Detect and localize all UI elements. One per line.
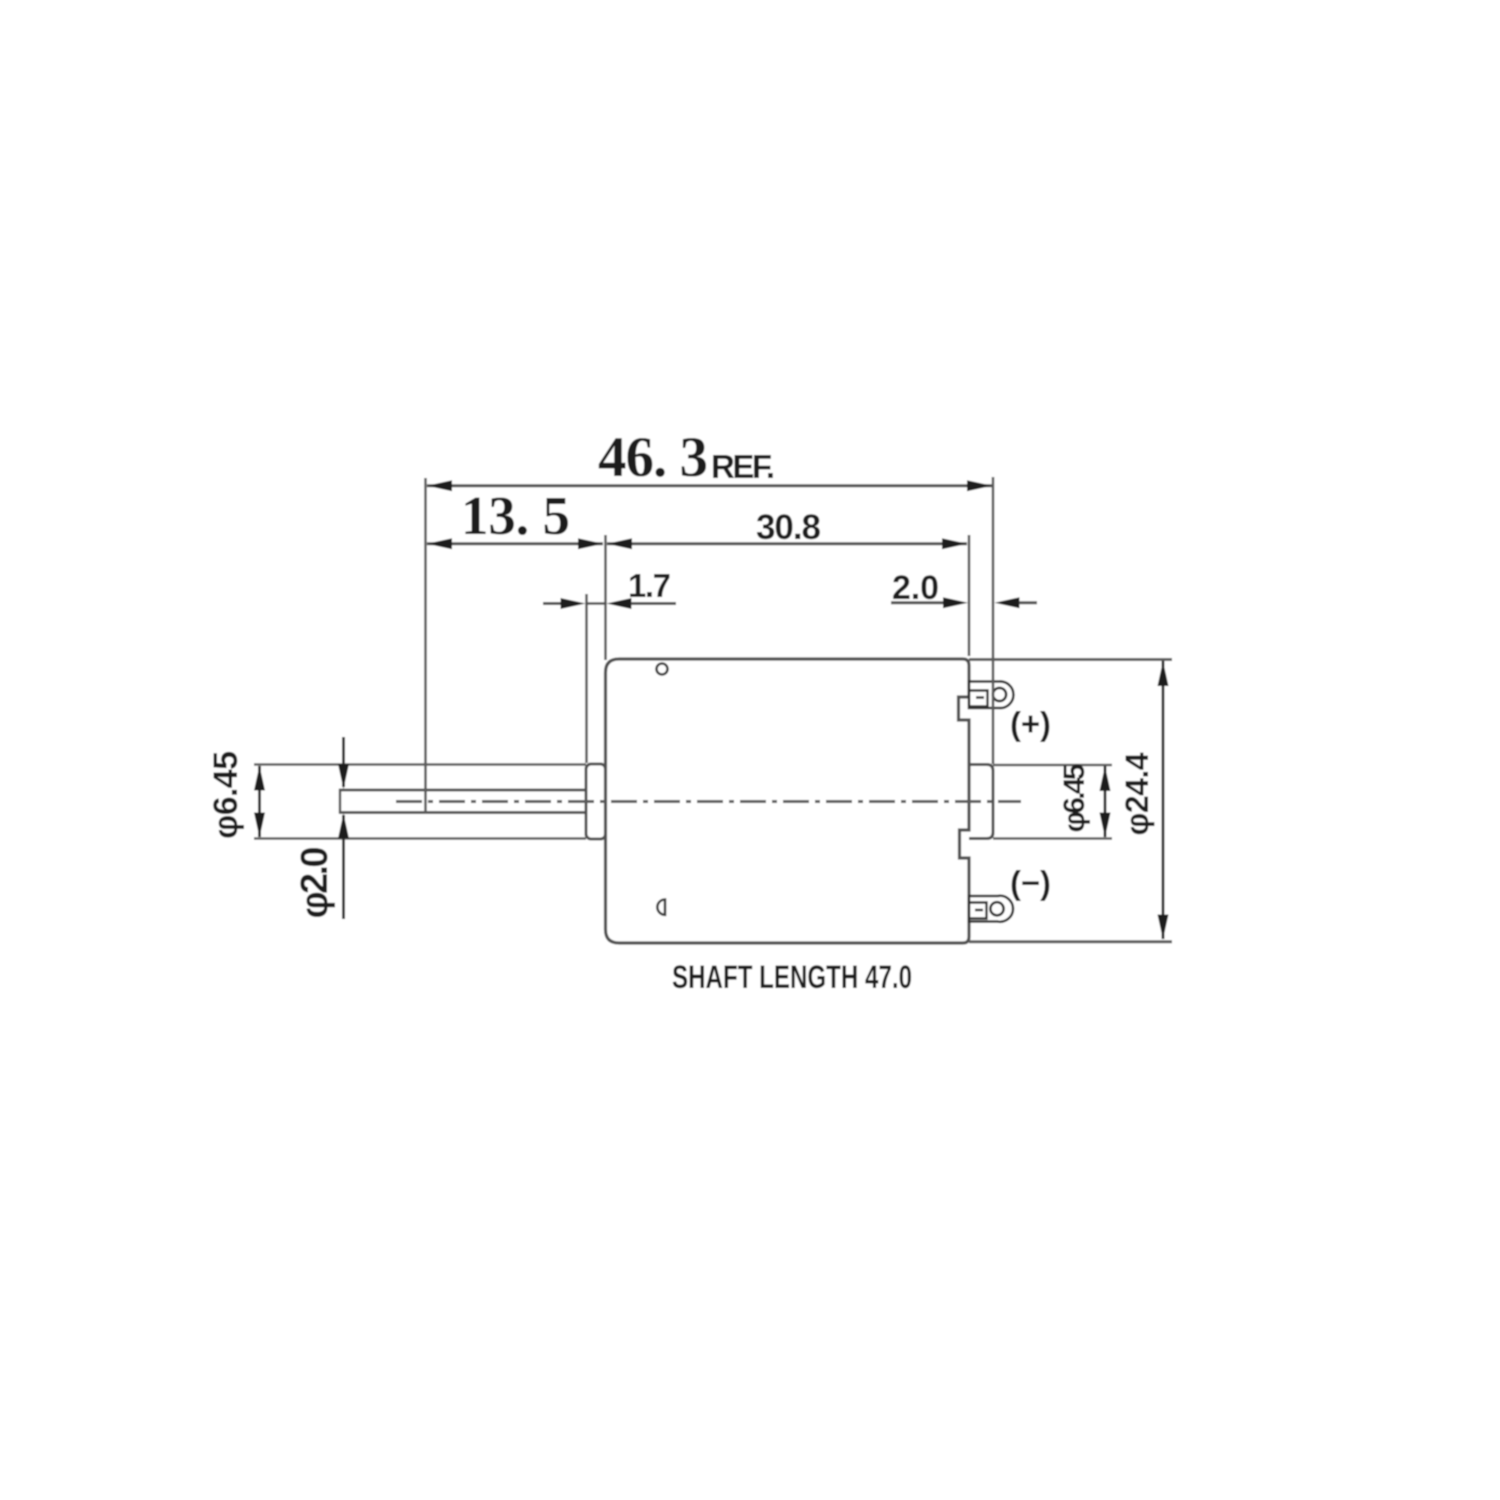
dim 2.0 left arrow	[943, 597, 968, 608]
dim phi2.0 bottom arrow line	[342, 815, 345, 919]
(+) terminal lug	[969, 681, 1013, 708]
shaft bottom line	[339, 811, 587, 814]
svg-text:φ24.4: φ24.4	[1119, 752, 1155, 835]
(+) terminal hole	[993, 688, 1006, 701]
dim phi6.45 right top arrow	[1100, 766, 1111, 791]
extension line boss rear face	[992, 477, 995, 764]
svg-text:REF.: REF.	[711, 448, 775, 485]
(+) terminal crimp	[970, 691, 988, 707]
motor body outline	[606, 659, 970, 943]
dim 13.5 right arrow	[578, 538, 603, 549]
dim 2.0 right tail	[1019, 601, 1037, 604]
svg-text:φ6.45: φ6.45	[207, 751, 245, 839]
(-) terminal crimp	[970, 903, 987, 919]
svg-text:φ6.45: φ6.45	[1058, 764, 1091, 833]
shaft top line	[339, 789, 587, 792]
collar (front bushing)	[586, 764, 606, 839]
svg-text:(−): (−)	[1010, 864, 1051, 901]
boss bottom extension line (phi6.45 right)	[993, 837, 1112, 840]
dim phi6.45 left extension top	[254, 763, 586, 766]
boss top extension line (phi6.45 right)	[993, 764, 1112, 767]
svg-text:SHAFT LENGTH 47.0: SHAFT LENGTH 47.0	[672, 959, 912, 995]
dim phi2.0 top arrow	[338, 764, 349, 789]
dim phi6.45 right arrow line	[1104, 766, 1107, 837]
shaft tip end	[339, 789, 342, 814]
body top edge extension to phi24.4	[969, 658, 1172, 661]
dim phi2.0 bottom arrow	[338, 814, 349, 839]
dim phi6.45 right bottom arrow	[1100, 813, 1111, 838]
dim phi6.45 left arrow line	[258, 766, 261, 837]
dim 13.5 left arrow	[427, 538, 452, 549]
dim 1.7 connecting segment	[586, 602, 606, 604]
dim phi24.4 bottom arrow	[1158, 915, 1169, 940]
dim 2.0 right arrow	[995, 597, 1020, 608]
dim 1.7 right arrow	[607, 598, 632, 609]
dim 30.8 right arrow	[942, 538, 967, 549]
dim phi6.45 left top arrow	[254, 766, 265, 791]
svg-text:46. 3: 46. 3	[598, 426, 708, 489]
dim 1.7 left arrow	[561, 598, 586, 609]
(-) terminal lug	[969, 896, 1013, 922]
dim 1.7 right tail	[631, 602, 676, 605]
bottom flange hole	[657, 900, 665, 915]
extension line body rear face	[968, 535, 971, 656]
extension line body front face	[604, 535, 607, 660]
dim phi6.45 left bottom arrow	[254, 813, 265, 838]
svg-text:φ2.0: φ2.0	[294, 847, 336, 919]
dim 1.7 left tail	[543, 602, 562, 605]
dim phi2.0 top arrow line	[342, 737, 345, 787]
dim phi6.45 left extension bottom	[254, 837, 586, 840]
dim 46.3 line	[427, 484, 992, 487]
(-) terminal hole	[990, 902, 1003, 915]
dim phi24.4 top arrow	[1158, 661, 1169, 686]
rear bearing boss	[969, 765, 993, 839]
dim 30.8 line	[607, 542, 967, 545]
extension line collar left	[585, 594, 588, 763]
dim 13.5 line	[427, 542, 603, 545]
svg-text:13. 5: 13. 5	[461, 485, 570, 546]
extension line shaft tip	[424, 478, 427, 813]
svg-text:1.7: 1.7	[628, 567, 671, 604]
dim 30.8 left arrow	[607, 538, 632, 549]
centerline axis	[396, 800, 1021, 803]
dim 46.3 right arrow	[967, 480, 992, 491]
top flange hole	[657, 664, 668, 675]
dim 46.3 left arrow	[427, 480, 452, 491]
svg-text:2.0: 2.0	[892, 569, 939, 607]
svg-text:(+): (+)	[1010, 705, 1051, 742]
body bottom edge extension to phi24.4	[969, 940, 1172, 943]
dim 2.0 left tail	[891, 601, 944, 604]
svg-text:30.8: 30.8	[756, 508, 821, 547]
dim phi24.4 arrow line	[1162, 661, 1165, 939]
